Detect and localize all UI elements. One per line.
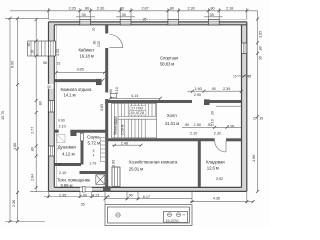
- svg-text:1.21: 1.21: [93, 192, 100, 197]
- svg-text:2.10: 2.10: [115, 87, 119, 94]
- svg-text:3.90: 3.90: [111, 159, 116, 167]
- svg-text:2.10: 2.10: [190, 131, 198, 136]
- svg-text:.80: .80: [39, 101, 43, 106]
- svg-text:35: 35: [81, 202, 85, 207]
- svg-text:2.48: 2.48: [121, 140, 128, 145]
- svg-text:1.79: 1.79: [89, 160, 96, 165]
- svg-text:35: 35: [260, 117, 264, 121]
- svg-text:Спортзал: Спортзал: [160, 55, 179, 60]
- svg-text:.80: .80: [93, 40, 97, 45]
- svg-text:Сауна: Сауна: [87, 134, 100, 139]
- svg-text:Холл: Холл: [167, 113, 177, 118]
- svg-text:25.01 м: 25.01 м: [129, 166, 143, 171]
- svg-text:50: 50: [47, 85, 51, 89]
- svg-text:.70: .70: [92, 27, 96, 32]
- svg-text:2.84: 2.84: [29, 173, 34, 181]
- svg-text:6.17: 6.17: [143, 194, 150, 199]
- svg-text:3.85: 3.85: [99, 104, 104, 111]
- svg-text:58.83 м: 58.83 м: [160, 61, 174, 66]
- svg-text:17 П90: 17 П90: [131, 107, 143, 111]
- svg-text:1.50: 1.50: [194, 122, 202, 127]
- svg-text:.90: .90: [109, 89, 113, 94]
- svg-text:16.18 м: 16.18 м: [80, 53, 94, 58]
- svg-text:1.90: 1.90: [195, 86, 203, 91]
- svg-text:4.36: 4.36: [213, 195, 220, 200]
- svg-text:14.1 м: 14.1 м: [64, 93, 76, 98]
- svg-text:2.35: 2.35: [69, 5, 76, 10]
- svg-text:2.10: 2.10: [59, 170, 67, 175]
- svg-text:2.90: 2.90: [194, 92, 202, 97]
- svg-text:15: 15: [233, 75, 237, 79]
- svg-text:.80: .80: [31, 147, 35, 152]
- svg-text:2.10: 2.10: [59, 124, 67, 129]
- svg-text:2.36: 2.36: [11, 200, 16, 207]
- svg-text:4.20: 4.20: [55, 48, 60, 56]
- svg-text:6.00: 6.00: [10, 60, 15, 68]
- svg-text:0.90: 0.90: [58, 118, 65, 122]
- svg-text:4: 4: [93, 154, 95, 158]
- svg-text:5.86 м: 5.86 м: [61, 183, 73, 188]
- svg-text:35: 35: [122, 12, 126, 17]
- svg-text:56: 56: [43, 61, 47, 65]
- svg-text:4.86: 4.86: [12, 143, 17, 150]
- svg-text:2.30: 2.30: [188, 6, 196, 11]
- svg-text:21.01 м: 21.01 м: [165, 121, 179, 126]
- svg-text:2.77: 2.77: [29, 127, 34, 134]
- svg-text:Кладовая: Кладовая: [206, 160, 225, 165]
- svg-text:2.18: 2.18: [226, 6, 233, 11]
- svg-text:.90: .90: [31, 49, 35, 54]
- svg-text:12.6 м: 12.6 м: [207, 165, 219, 170]
- svg-text:15: 15: [57, 62, 61, 66]
- svg-text:2.35: 2.35: [59, 192, 66, 197]
- svg-text:19.4Г28: 19.4Г28: [130, 111, 144, 115]
- svg-text:1.85: 1.85: [258, 31, 263, 38]
- svg-text:2.39: 2.39: [223, 86, 230, 91]
- svg-text:20: 20: [253, 117, 257, 121]
- svg-text:35: 35: [248, 75, 252, 79]
- svg-text:1.96: 1.96: [251, 155, 256, 162]
- svg-text:2.87: 2.87: [142, 6, 149, 11]
- svg-text:35: 35: [143, 17, 147, 21]
- svg-text:Комната отдыха: Комната отдыха: [61, 87, 93, 92]
- svg-text:Кабинет: Кабинет: [79, 47, 95, 52]
- svg-text:90.: 90.: [58, 163, 63, 167]
- svg-text:2.52: 2.52: [97, 41, 101, 47]
- svg-text:Техн. помещение: Техн. помещение: [57, 177, 91, 182]
- svg-text:16.2(0)1: 16.2(0)1: [166, 219, 179, 223]
- svg-text:4.14: 4.14: [131, 93, 139, 98]
- svg-text:2.30: 2.30: [97, 5, 105, 10]
- svg-text:Хозяйственная комната: Хозяйственная комната: [129, 160, 178, 165]
- svg-text:3.92: 3.92: [216, 176, 223, 181]
- svg-text:.80: .80: [259, 46, 263, 51]
- svg-text:.60: .60: [27, 42, 31, 47]
- svg-text:3.85: 3.85: [77, 67, 84, 72]
- svg-text:3.58 м: 3.58 м: [120, 124, 125, 135]
- svg-text:15.70: 15.70: [0, 110, 5, 120]
- svg-text:35: 35: [259, 56, 263, 60]
- svg-text:5.72 м: 5.72 м: [88, 141, 100, 146]
- svg-text:Мансарда: Мансарда: [113, 116, 118, 135]
- svg-text:35: 35: [210, 12, 214, 17]
- svg-text:Душевая: Душевая: [58, 145, 77, 150]
- svg-text:4.12 м: 4.12 м: [62, 152, 74, 157]
- svg-text:.90: .90: [211, 87, 216, 91]
- svg-text:8: 8: [93, 149, 95, 153]
- svg-text:2.10: 2.10: [210, 119, 214, 126]
- svg-text:2.32: 2.32: [214, 130, 221, 135]
- svg-text:20: 20: [210, 111, 214, 115]
- svg-text:35: 35: [82, 12, 86, 17]
